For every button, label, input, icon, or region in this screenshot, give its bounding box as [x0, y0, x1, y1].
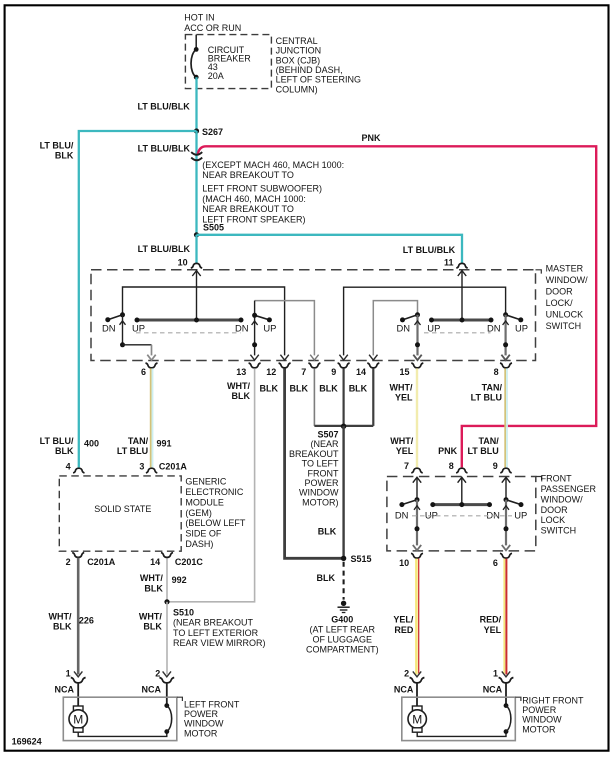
label TAN/ LT BLU under pin 8: [471, 383, 503, 403]
svg-text:WHT/: WHT/: [140, 573, 163, 583]
switch lever UP right group switch 4: [501, 312, 523, 360]
svg-text:MOTOR: MOTOR: [522, 724, 556, 734]
svg-text:S505: S505: [203, 223, 224, 233]
svg-text:BLK: BLK: [317, 573, 336, 583]
svg-text:FRONT: FRONT: [308, 468, 339, 478]
svg-text:10: 10: [399, 558, 409, 568]
svg-text:6: 6: [141, 367, 146, 377]
svg-text:RED/: RED/: [480, 615, 502, 625]
svg-text:7: 7: [301, 367, 306, 377]
svg-text:NEAR BREAKOUT TO: NEAR BREAKOUT TO: [202, 204, 294, 214]
label CIRCUIT BREAKER 43 20A: [208, 45, 252, 81]
contact bar right group: [429, 318, 494, 323]
svg-text:SIDE OF: SIDE OF: [185, 529, 222, 539]
left front power window motor box: [63, 697, 177, 740]
wire LT BLU/BLK from circuit breaker down to S267: [195, 77, 197, 131]
svg-text:(BEHIND DASH,: (BEHIND DASH,: [276, 65, 343, 75]
pin 9 connector of passenger switch: [493, 461, 512, 483]
svg-text:WINDOW: WINDOW: [184, 719, 224, 729]
svg-text:DOOR: DOOR: [541, 505, 569, 515]
label WHT/ YEL above passenger pin 7: [390, 436, 413, 456]
right motor M symbol: [408, 706, 426, 732]
label WHT/ BLK middle: [139, 612, 162, 632]
svg-text:DASH): DASH): [185, 539, 213, 549]
svg-text:169624: 169624: [12, 737, 42, 747]
svg-text:POWER: POWER: [522, 705, 557, 715]
front passenger window door lock switch dashed box: [387, 477, 536, 551]
bracket tick for master switch label: [536, 270, 542, 274]
svg-text:S510: S510: [173, 608, 194, 618]
wire pin 11 to contact bar right group: [461, 272, 463, 320]
wire LT BLU/BLK from S267 down to S505: [195, 131, 197, 235]
svg-text:(NEAR: (NEAR: [310, 439, 339, 449]
svg-text:TO LEFT EXTERIOR: TO LEFT EXTERIOR: [173, 628, 259, 638]
svg-text:LT BLU/BLK: LT BLU/BLK: [138, 244, 191, 254]
gray rail pin 14 to switch 3: [369, 301, 417, 361]
passenger switch bottom pin labels: [399, 558, 498, 568]
label LEFT FRONT POWER WINDOW MOTOR: [184, 699, 240, 738]
svg-text:LOCK/: LOCK/: [546, 298, 574, 308]
wire WHT/BLK 226 from GEM pin 2 to left motor pin 1: [77, 558, 80, 675]
svg-text:WINDOW/: WINDOW/: [546, 275, 588, 285]
passenger switch lever DN switch A: [399, 479, 421, 551]
label LT BLU/ BLK left: [40, 140, 74, 160]
svg-text:BLK: BLK: [349, 384, 368, 394]
right motor pin 2 connector: [394, 669, 425, 706]
svg-text:C201C: C201C: [175, 557, 204, 567]
svg-text:(GEM): (GEM): [185, 508, 212, 518]
svg-text:TAN/: TAN/: [128, 436, 149, 446]
svg-text:LT BLU/BLK: LT BLU/BLK: [137, 101, 190, 111]
label FRONT PASSENGER WINDOW/DOOR LOCK SWITCH: [541, 474, 597, 536]
svg-text:6: 6: [493, 558, 498, 568]
label TAN/ LT BLU above passenger pin 9: [467, 436, 499, 456]
svg-text:COLUMN): COLUMN): [276, 84, 318, 94]
svg-text:CENTRAL: CENTRAL: [276, 36, 318, 46]
label HOT IN ACC OR RUN: [184, 13, 241, 33]
svg-text:LEFT FRONT SUBWOOFER): LEFT FRONT SUBWOOFER): [202, 183, 322, 193]
svg-text:14: 14: [356, 367, 366, 377]
wire BLK from pin 9 to S507: [343, 368, 345, 426]
left group rail to pin 12: [123, 287, 289, 360]
svg-text:M: M: [73, 712, 83, 726]
label G400 location note: [306, 615, 379, 655]
svg-text:NCA: NCA: [483, 685, 503, 695]
left motor pin 2 connector: [142, 669, 175, 706]
svg-text:UP: UP: [427, 323, 440, 334]
wire LT BLU/BLK from S505 to master switch pin 11: [197, 235, 463, 264]
svg-text:NCA: NCA: [55, 685, 75, 695]
svg-text:BLK: BLK: [232, 391, 251, 401]
left motor M symbol: [69, 706, 87, 732]
pin 7 connector of passenger switch: [404, 461, 423, 483]
svg-text:(NEAR BREAKOUT: (NEAR BREAKOUT: [173, 617, 254, 627]
svg-text:YEL/: YEL/: [393, 615, 414, 625]
svg-text:UP: UP: [515, 323, 528, 334]
label RED/ YEL: [480, 615, 502, 636]
contact bar left group: [135, 318, 244, 323]
master switch bottom connector cups: [146, 363, 513, 368]
label DN UP switch 2: [235, 323, 276, 334]
bracket tick for passenger switch label: [536, 477, 542, 481]
label MASTER WINDOW/DOOR LOCK/UNLOCK SWITCH: [546, 264, 588, 332]
wire BLK from pin 14 to S507: [372, 368, 374, 426]
connector C201A pin 3 cup: [139, 462, 187, 473]
svg-text:YEL: YEL: [484, 625, 502, 635]
svg-text:POWER: POWER: [184, 709, 219, 719]
node S510 junction: [164, 599, 169, 604]
label YEL/ RED: [393, 615, 414, 636]
svg-text:DN: DN: [397, 323, 411, 334]
label DN UP passenger switch B: [486, 509, 527, 520]
svg-text:ACC OR RUN: ACC OR RUN: [184, 23, 241, 33]
svg-text:BLK: BLK: [53, 622, 72, 632]
circuit breaker 43 20A symbol: [191, 35, 199, 80]
generic electronic module GEM dashed box: [59, 476, 181, 551]
svg-text:MASTER: MASTER: [546, 264, 584, 274]
svg-text:MODULE: MODULE: [185, 497, 224, 507]
svg-text:LT BLU: LT BLU: [467, 446, 498, 456]
svg-text:BLK: BLK: [55, 151, 74, 161]
pin 8 connector of passenger switch: [449, 461, 468, 483]
svg-text:PASSENGER: PASSENGER: [541, 484, 597, 494]
central junction box CJB dashed box: [185, 35, 271, 89]
passenger switch lever UP switch B: [502, 479, 524, 551]
svg-text:DN: DN: [395, 509, 409, 520]
switch lever UP left window switch 2: [250, 301, 272, 361]
label TAN/ LT BLU 991: [117, 436, 172, 456]
ground G400 symbol: [338, 601, 350, 613]
label DN UP switch 4: [487, 323, 528, 334]
svg-text:BLK: BLK: [319, 384, 338, 394]
svg-text:14: 14: [150, 557, 160, 567]
svg-text:LEFT FRONT: LEFT FRONT: [184, 699, 240, 709]
svg-text:NEAR BREAKOUT TO: NEAR BREAKOUT TO: [202, 170, 294, 180]
right motor pin 1 connector: [483, 669, 514, 706]
right front power window motor box: [402, 697, 516, 740]
node S267 splice dot: [194, 128, 199, 133]
svg-text:LT BLU/: LT BLU/: [40, 140, 74, 150]
svg-text:LT BLU: LT BLU: [471, 393, 502, 403]
svg-text:HOT IN: HOT IN: [184, 13, 214, 23]
wire RED/YEL from passenger pin 6 to right motor pin 1: [504, 559, 506, 675]
svg-text:BLK: BLK: [260, 384, 279, 394]
wire LT BLU/BLK from S505 down to master switch pin 10: [195, 235, 197, 264]
gray rail switch 2 to pin 7: [255, 301, 319, 361]
master window door lock unlock switch dashed box: [91, 270, 536, 361]
svg-text:TAN/: TAN/: [482, 383, 503, 393]
svg-text:UNLOCK: UNLOCK: [546, 310, 584, 320]
wire pin 10 to contact bar: [196, 272, 198, 320]
svg-text:1: 1: [66, 669, 71, 679]
right group rail pin 9 to switch 4: [339, 287, 505, 360]
svg-text:DOOR: DOOR: [546, 287, 574, 297]
passenger contact bar: [430, 479, 492, 508]
svg-text:(EXCEPT MACH 460, MACH 1000:: (EXCEPT MACH 460, MACH 1000:: [202, 160, 344, 170]
svg-text:BLK: BLK: [318, 527, 337, 537]
svg-text:WHT/: WHT/: [390, 436, 413, 446]
svg-text:BLK: BLK: [143, 622, 162, 632]
switch lever DN left window switch 1: [105, 312, 125, 325]
wire PNK from breakout to right edge and down to passenger switch pin 8: [198, 146, 597, 467]
node S505 splice dot: [194, 232, 199, 237]
label S510 breakout note: [173, 608, 266, 649]
svg-text:COMPARTMENT): COMPARTMENT): [306, 645, 379, 655]
svg-text:991: 991: [157, 439, 172, 449]
svg-text:WHT/: WHT/: [227, 381, 250, 391]
svg-text:(MACH 460, MACH 1000:: (MACH 460, MACH 1000:: [202, 194, 306, 204]
svg-text:YEL: YEL: [396, 446, 414, 456]
mechanical link dashed right group: [424, 332, 491, 334]
label LT BLU/ BLK 400: [40, 436, 99, 456]
wire BLK from S507 down to S515: [342, 426, 344, 558]
bracket tick for right motor label: [515, 697, 521, 701]
bracket tick for left motor label: [177, 697, 183, 701]
svg-text:11: 11: [444, 258, 454, 268]
wire BLK dashed from S515 to G400: [343, 562, 345, 600]
svg-text:10: 10: [178, 258, 188, 268]
wire switch 1 to pin 6: [120, 315, 156, 360]
svg-text:1: 1: [493, 669, 498, 679]
svg-text:C201A: C201A: [159, 462, 188, 472]
svg-text:3: 3: [139, 462, 144, 472]
node S507 junction: [314, 424, 373, 429]
left motor pin 1 connector: [55, 669, 86, 706]
label S507 breakout note: [289, 430, 339, 508]
svg-text:LT BLU/BLK: LT BLU/BLK: [403, 245, 456, 255]
label EXCEPT MACH 460 note: [202, 160, 344, 225]
svg-text:2: 2: [404, 669, 409, 679]
switch lever DN right group switch 3: [400, 312, 422, 360]
svg-text:M: M: [412, 712, 422, 726]
svg-text:(BELOW LEFT: (BELOW LEFT: [185, 518, 246, 528]
label DN UP switch 3: [397, 323, 441, 334]
svg-text:MOTOR: MOTOR: [184, 728, 218, 738]
svg-text:WINDOW/: WINDOW/: [541, 494, 583, 504]
passenger switch bottom connector cups: [411, 553, 512, 558]
svg-text:PNK: PNK: [362, 133, 382, 143]
breakout symbol below S267: [191, 152, 202, 160]
left motor winding lead: [78, 703, 171, 736]
svg-text:ELECTRONIC: ELECTRONIC: [185, 487, 244, 497]
svg-text:992: 992: [172, 575, 187, 585]
wire WHT/YEL from master pin 15 to passenger pin 7: [416, 368, 418, 467]
svg-text:LT BLU: LT BLU: [117, 446, 148, 456]
svg-text:C201A: C201A: [87, 557, 116, 567]
svg-text:LT BLU/: LT BLU/: [40, 436, 74, 446]
svg-text:S267: S267: [202, 127, 223, 137]
pin 11 connector of master switch: [444, 258, 468, 276]
svg-text:MOTOR): MOTOR): [302, 497, 338, 507]
svg-text:UP: UP: [425, 509, 438, 520]
svg-text:4: 4: [66, 462, 71, 472]
svg-text:GENERIC: GENERIC: [185, 477, 227, 487]
svg-text:RIGHT FRONT: RIGHT FRONT: [522, 695, 584, 705]
svg-text:8: 8: [494, 367, 499, 377]
svg-text:BLK: BLK: [290, 384, 309, 394]
svg-text:NCA: NCA: [142, 685, 162, 695]
wire BLK from pin 7 to S507: [313, 368, 315, 426]
label GENERIC ELECTRONIC MODULE (GEM): [185, 477, 246, 549]
label WHT/ BLK 992 above S510: [140, 573, 187, 593]
pin 10 connector of master switch: [178, 258, 203, 276]
right motor winding lead: [417, 703, 511, 736]
svg-text:WINDOW: WINDOW: [522, 715, 562, 725]
svg-text:WHT/: WHT/: [49, 612, 72, 622]
svg-text:TAN/: TAN/: [478, 436, 499, 446]
svg-text:(AT LEFT REAR: (AT LEFT REAR: [310, 625, 376, 635]
label RIGHT FRONT POWER WINDOW MOTOR: [522, 695, 584, 734]
svg-text:BLK: BLK: [55, 446, 74, 456]
svg-text:9: 9: [331, 367, 336, 377]
svg-text:400: 400: [84, 439, 99, 449]
svg-text:20A: 20A: [208, 71, 224, 81]
label CENTRAL JUNCTION BOX (CJB): [276, 36, 361, 95]
node S515 junction: [341, 556, 346, 561]
svg-text:REAR VIEW MIRROR): REAR VIEW MIRROR): [173, 638, 266, 648]
label DN UP switch 1: [102, 323, 145, 334]
svg-text:BREAKOUT: BREAKOUT: [289, 449, 339, 459]
svg-text:WHT/: WHT/: [390, 383, 413, 393]
svg-text:226: 226: [79, 616, 94, 626]
svg-text:G400: G400: [331, 615, 353, 625]
svg-text:DN: DN: [235, 323, 249, 334]
label WHT/ YEL under pin 15: [390, 383, 413, 403]
svg-text:DN: DN: [486, 509, 500, 520]
master switch pin number labels: [141, 367, 499, 377]
GEM bottom pin 14 cup C201C: [150, 553, 203, 567]
svg-text:DN: DN: [487, 323, 501, 334]
svg-text:2: 2: [155, 669, 160, 679]
label DN UP passenger switch A: [395, 509, 438, 520]
svg-text:13: 13: [236, 367, 246, 377]
svg-text:S507: S507: [317, 430, 338, 440]
svg-text:WINDOW: WINDOW: [299, 488, 339, 498]
svg-text:FRONT: FRONT: [541, 474, 572, 484]
label WHT/ BLK under pin 13: [227, 381, 250, 401]
svg-text:UP: UP: [263, 323, 276, 334]
svg-text:8: 8: [449, 461, 454, 471]
svg-text:2: 2: [66, 557, 71, 567]
svg-text:SWITCH: SWITCH: [541, 526, 577, 536]
svg-text:RED: RED: [394, 625, 414, 635]
label WHT/ BLK 226: [49, 612, 94, 632]
svg-text:9: 9: [493, 461, 498, 471]
svg-text:BLK: BLK: [144, 583, 163, 593]
svg-text:OF LUGGAGE: OF LUGGAGE: [313, 635, 373, 645]
wire WHT/BLK 992 from GEM pin 14 to S510: [166, 558, 168, 602]
svg-text:TO LEFT: TO LEFT: [302, 459, 339, 469]
mechanical link dashed passenger: [412, 515, 512, 517]
wire YEL/RED from passenger pin 10 to right motor pin 2: [416, 559, 418, 675]
svg-text:POWER: POWER: [304, 478, 339, 488]
svg-text:DN: DN: [102, 323, 116, 334]
wire TAN/LT BLU from master pin 8 to passenger pin 9: [505, 368, 507, 467]
svg-text:LT BLU/BLK: LT BLU/BLK: [138, 144, 191, 154]
svg-text:LOCK: LOCK: [541, 515, 566, 525]
wire LT BLU/BLK left branch from S267 down to GEM pin 4: [79, 131, 197, 467]
wire WHT/BLK from pin 13 down to S510: [167, 368, 255, 601]
svg-text:S515: S515: [351, 554, 372, 564]
connector C201A pin 4 cup: [66, 462, 85, 473]
svg-text:JUNCTION: JUNCTION: [276, 46, 322, 56]
svg-text:LEFT OF STEERING: LEFT OF STEERING: [276, 75, 361, 85]
svg-text:SWITCH: SWITCH: [546, 321, 582, 331]
mechanical link dashed left group: [136, 332, 241, 334]
svg-text:UP: UP: [132, 323, 145, 334]
GEM bottom pin 2 cup C201A: [66, 553, 116, 567]
svg-text:NCA: NCA: [394, 685, 414, 695]
svg-text:WHT/: WHT/: [139, 612, 162, 622]
svg-text:SOLID STATE: SOLID STATE: [94, 504, 151, 514]
wire BLK from pin 12 down to S515: [285, 368, 344, 558]
svg-text:UP: UP: [514, 509, 527, 520]
svg-text:12: 12: [266, 367, 276, 377]
wire TAN/LT BLU from pin 6 to C201A pin 3: [151, 368, 153, 467]
svg-text:7: 7: [404, 461, 409, 471]
svg-text:YEL: YEL: [395, 393, 413, 403]
wire WHT/BLK from S510 to left motor pin 2: [166, 602, 168, 675]
svg-text:PNK: PNK: [438, 446, 458, 456]
svg-text:15: 15: [399, 367, 409, 377]
svg-text:BOX (CJB): BOX (CJB): [276, 55, 321, 65]
